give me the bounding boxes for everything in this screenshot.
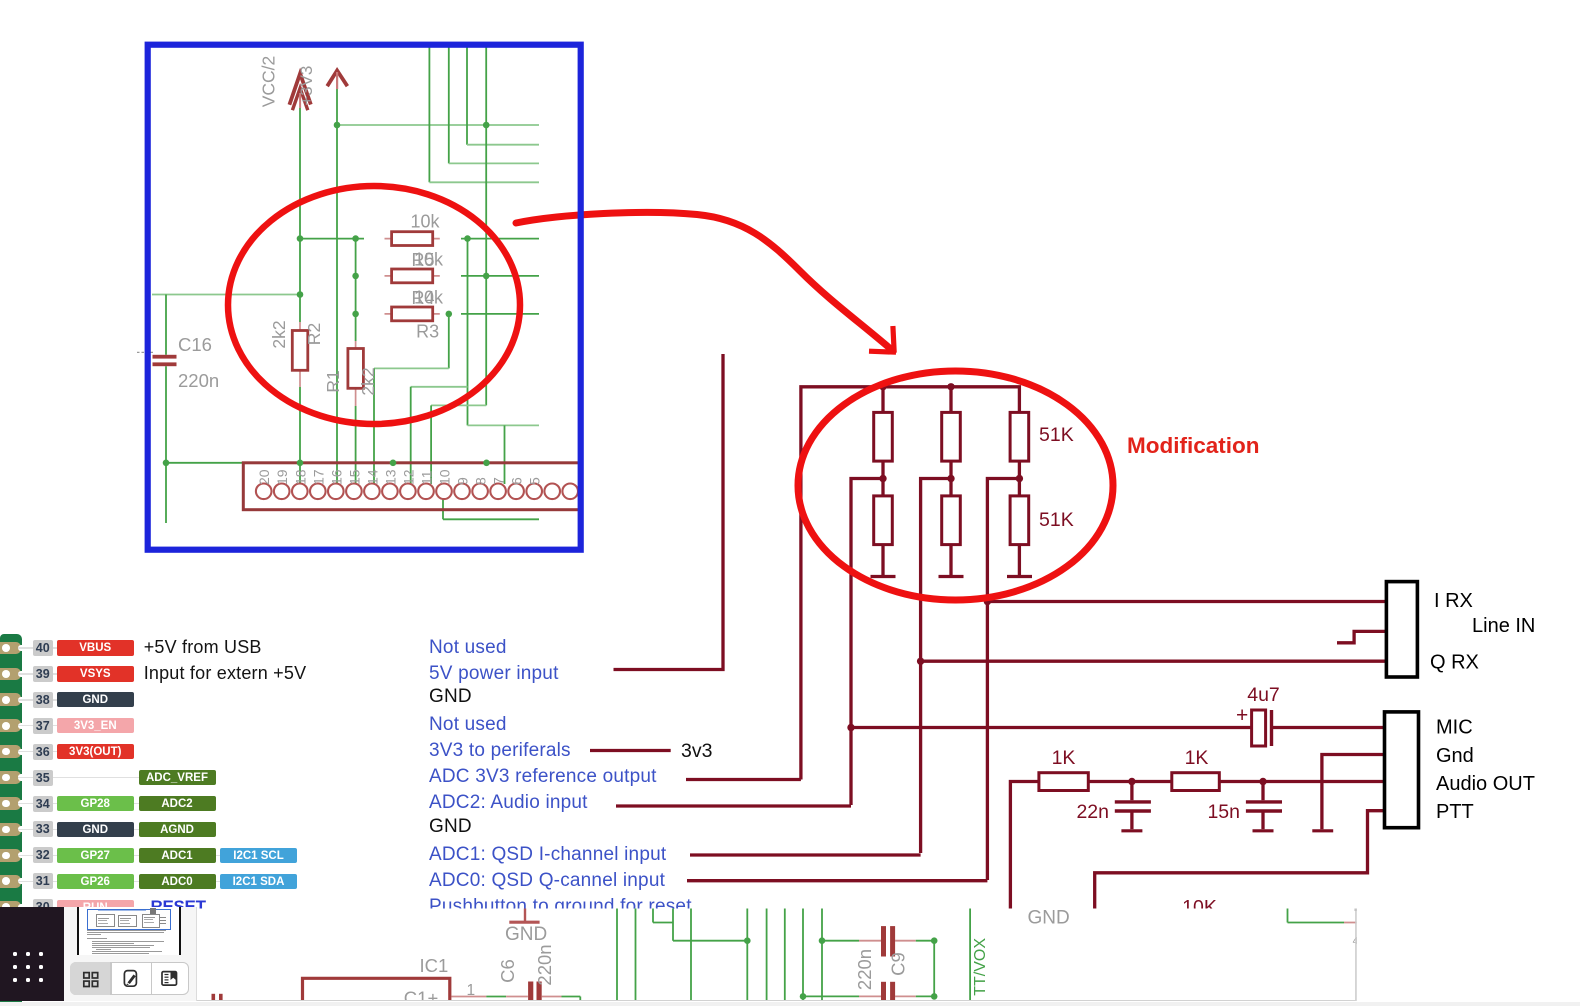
svg-text:1K: 1K: [1052, 747, 1076, 769]
pin row 36: [0, 745, 21, 758]
capacitor below C9: [881, 982, 886, 1002]
svg-text:7: 7: [491, 477, 507, 485]
svg-text:220n: 220n: [534, 944, 555, 985]
svg-text:PTT: PTT: [1436, 801, 1474, 823]
junctions rows left: [297, 235, 304, 242]
toolbar: [70, 962, 189, 995]
power symbol VCC/2: [289, 74, 310, 105]
wire branch2 tap: [921, 479, 951, 854]
white side panel: [64, 907, 198, 1001]
resistor 1K first: [1039, 773, 1088, 791]
junction rail/branch2: [947, 383, 954, 390]
black launcher panel: [0, 907, 64, 1001]
pin row 40: [0, 642, 21, 655]
wire ADC0 Q-channel: [687, 879, 987, 882]
svg-text:6: 6: [509, 477, 525, 485]
wire vertical with jog: [652, 908, 654, 922]
wire ADC1 I-channel: [690, 853, 921, 856]
svg-text:C9: C9: [888, 952, 909, 976]
bottom-left overlay panels: [0, 0, 440, 1006]
capacitor C9: [881, 926, 886, 956]
wire vertical x=766.6: [766, 908, 768, 1001]
junction C9 top-left: [819, 937, 826, 944]
power symbol +3V3: [327, 71, 347, 87]
junction tap3/IRX: [984, 598, 991, 605]
wire row2 net: [461, 275, 539, 277]
wire VCC/2 vertical: [299, 108, 301, 322]
svg-text:15n: 15n: [1207, 801, 1240, 823]
pico PCB edge strip: [0, 634, 22, 1006]
junction row2 right: [483, 273, 490, 280]
wire Line IN stub: [1337, 631, 1386, 642]
resistor branch2 bottom: [942, 496, 961, 545]
svg-text:220n: 220n: [854, 949, 875, 990]
header pin hole 10: [436, 484, 452, 500]
wire 3v3: [590, 749, 671, 752]
wire row1 net: [300, 238, 364, 240]
svg-text:9: 9: [455, 477, 471, 485]
resistor branch1 bottom: [874, 496, 893, 545]
svg-text:I RX: I RX: [1434, 590, 1473, 612]
svg-text:MIC: MIC: [1436, 717, 1473, 739]
pin row 31: [0, 875, 21, 888]
pin row 32: [0, 849, 21, 862]
pin header SV1: [243, 463, 583, 510]
wire right vertical link: [933, 941, 935, 997]
junction row1 right: [464, 235, 471, 242]
leftover capacitor marks: [212, 994, 216, 1001]
wire branch1 tap: [851, 479, 883, 806]
junction rail/branch1: [879, 383, 886, 390]
resistor R1 2k2: [355, 341, 357, 406]
svg-text:51K: 51K: [1039, 509, 1074, 531]
junction 22n: [1128, 778, 1135, 785]
wire horizontal top net: [337, 124, 539, 126]
wire vertical x486 from top net down: [485, 125, 487, 405]
junction row3 right: [446, 311, 453, 318]
capacitor C16: [153, 355, 177, 359]
Raspberry Pi Pico pinout diagram (left edge): [0, 0, 760, 1006]
wire right corner net: [1287, 908, 1289, 922]
ground bar branch2: [939, 575, 964, 578]
junction branch1 mid: [879, 475, 886, 482]
wire MIC right: [1272, 726, 1385, 729]
resistor 51K branch3 bottom: [1010, 496, 1029, 545]
capacitor C 4u7 polarized: [1252, 710, 1266, 746]
wire +3V3 vertical down to pin 16: [336, 89, 338, 484]
wire ADC 3V3 reference: [686, 778, 801, 781]
pin row 39: [0, 668, 21, 681]
svg-text:+: +: [1236, 704, 1248, 727]
svg-text:1K: 1K: [1185, 747, 1209, 769]
svg-text:8: 8: [473, 477, 489, 485]
svg-text:GND: GND: [1028, 908, 1070, 929]
red ellipse around modification: [798, 371, 1113, 600]
wire Gnd pin: [1322, 755, 1385, 830]
pin function descriptions column: [0, 0, 780, 1006]
svg-text:Audio OUT: Audio OUT: [1436, 773, 1535, 795]
header pin hole 12: [400, 484, 416, 500]
svg-text:4u7: 4u7: [1247, 684, 1280, 706]
resistor R2 2k2: [299, 322, 301, 387]
wire row3 net: [461, 313, 539, 315]
wire nested corner 1: [428, 47, 430, 182]
pin row 38: [0, 693, 21, 706]
wire branch3 stem: [1018, 461, 1021, 496]
svg-text:TT/VOX: TT/VOX: [972, 938, 989, 996]
wire vertical x=822: [821, 908, 823, 1001]
junction A: [744, 937, 751, 944]
wire PTT: [1095, 811, 1385, 910]
wire vertical right of row1 down: [467, 239, 469, 426]
ground Gnd pin: [1312, 829, 1333, 832]
wire branch1 stem: [881, 387, 884, 413]
header pin hole 5: [526, 484, 542, 500]
header pin hole 7: [490, 484, 506, 500]
resistor 51K branch1 top: [874, 412, 893, 461]
ground bar branch3: [1007, 575, 1032, 578]
header pin hole 4: [544, 484, 560, 500]
resistor 1K second: [1172, 773, 1220, 791]
resistor (row2): [385, 275, 440, 277]
junction C9 top-right: [931, 937, 938, 944]
junction branch3 mid: [1016, 475, 1023, 482]
pin row 33: [0, 823, 21, 836]
RESET label row 30: [151, 897, 206, 917]
wire top rail of divider network: [801, 387, 1020, 780]
header pin hole 13: [382, 484, 398, 500]
wire bottom cap net vertical: [802, 908, 804, 1001]
junction top net: [483, 122, 490, 129]
red ellipse annotation (original circuit): [228, 186, 520, 424]
wire C16 bottom to header: [166, 462, 300, 464]
wire C16 vertical: [165, 295, 167, 355]
window border bottom: [0, 1000, 1357, 1002]
wire branch2 stem: [949, 387, 952, 413]
header pin hole 15: [346, 484, 362, 500]
ground symbol GND (band): [524, 908, 526, 921]
header pin hole 3: [562, 484, 578, 500]
wire ADC2 audio input: [616, 804, 851, 807]
document thumbnail: [77, 907, 181, 955]
wire nested corner 3: [466, 47, 468, 145]
wire nested corner 2: [448, 47, 450, 163]
red arrow from blue box to modification: [516, 212, 893, 351]
junction C16 net: [297, 291, 304, 298]
pin row 37: [0, 719, 21, 732]
wire C9 top net: [822, 940, 859, 942]
ground bar branch1: [871, 575, 896, 578]
svg-text:Modification: Modification: [1127, 433, 1259, 458]
pin row 35: [0, 771, 21, 784]
junction dots on header: [297, 460, 304, 467]
capacitor C6: [528, 982, 533, 1003]
wire RC filter input: [1010, 782, 1039, 911]
wire MIC left: [851, 726, 1252, 729]
scrollbar mark top: [1355, 908, 1357, 911]
wire row3 right corner down to pin 14: [448, 314, 450, 369]
node 3v3 label: [681, 740, 712, 763]
wire to Audio OUT: [1219, 780, 1384, 783]
wire horizontal net A: [673, 940, 747, 942]
wire vertical x=691: [690, 908, 692, 1001]
junction branch2 mid: [947, 475, 954, 482]
svg-text:Gnd: Gnd: [1436, 745, 1474, 767]
header pin hole 20: [256, 484, 272, 500]
ground 22n: [1121, 829, 1142, 832]
junction tap2/QRX: [917, 658, 924, 665]
junction bottom-left: [800, 993, 807, 1000]
wire vertical into junction of top net: [485, 47, 487, 125]
connector MIC/PTT: [1385, 712, 1419, 828]
wire below header L: [442, 484, 444, 519]
bottom window strip: [0, 1002, 1580, 1006]
resistor 51K branch3 top: [1010, 412, 1029, 461]
resistor branch2 top: [942, 412, 961, 461]
junction 15n: [1259, 778, 1266, 785]
wire branch3 tap: [987, 479, 1019, 881]
IC1 outline: [303, 978, 450, 1006]
wire step to pin 12: [411, 386, 468, 388]
ground 15n: [1253, 829, 1274, 832]
wire vertical x=635.5: [635, 908, 637, 1001]
svg-text:Q RX: Q RX: [1430, 652, 1479, 674]
header pin hole 8: [472, 484, 488, 500]
header pin hole 14: [364, 484, 380, 500]
pin row 30: [0, 901, 21, 914]
wire into C6: [452, 996, 487, 998]
svg-text:51K: 51K: [1039, 424, 1074, 446]
capacitor 22n: [1130, 782, 1133, 801]
header pin hole 17: [310, 484, 326, 500]
junction bottom-right: [931, 993, 938, 1000]
wire R1 bottom to pin 15: [355, 406, 357, 484]
header pin hole 19: [274, 484, 290, 500]
svg-text:5: 5: [527, 477, 543, 485]
svg-text:GND: GND: [505, 924, 547, 945]
thumbnail diagram blue box: [87, 909, 171, 930]
wire from C6: [542, 996, 562, 998]
header pin hole 6: [508, 484, 524, 500]
svg-text:C6: C6: [497, 959, 518, 983]
wire R2 bottom to pin 18: [299, 387, 301, 484]
header pin hole 16: [328, 484, 344, 500]
wire vertical x=784.8: [784, 908, 786, 1001]
leader dash near C16: [137, 351, 154, 353]
blue rectangle callout box: [148, 45, 581, 550]
svg-text:22n: 22n: [1076, 801, 1109, 823]
wire vertical x=617: [616, 908, 618, 1001]
wire C16 net horizontal: [152, 294, 300, 296]
wire vertical x355 through rows: [355, 239, 357, 341]
junction tap1/MIC: [847, 724, 854, 731]
header pin hole 11: [418, 484, 434, 500]
window border right: [1355, 908, 1357, 1001]
wire vertical through junction A: [746, 908, 748, 1001]
header pin hole 18: [292, 484, 308, 500]
wire vertical near TT/VOX: [969, 908, 971, 1001]
resistor R5 10k (row1): [385, 238, 440, 240]
resistor R3 (row3): [385, 313, 440, 315]
wire I RX: [987, 600, 1386, 603]
wire between 1K resistors: [1088, 780, 1172, 783]
wire 5V power input: [614, 354, 724, 670]
connector Line IN (I RX / Q RX): [1386, 582, 1417, 677]
wire Q RX: [921, 660, 1387, 663]
header pin hole 9: [454, 484, 470, 500]
capacitor 15n: [1261, 782, 1264, 801]
pin row 34: [0, 797, 21, 810]
svg-text:Line IN: Line IN: [1472, 615, 1535, 637]
